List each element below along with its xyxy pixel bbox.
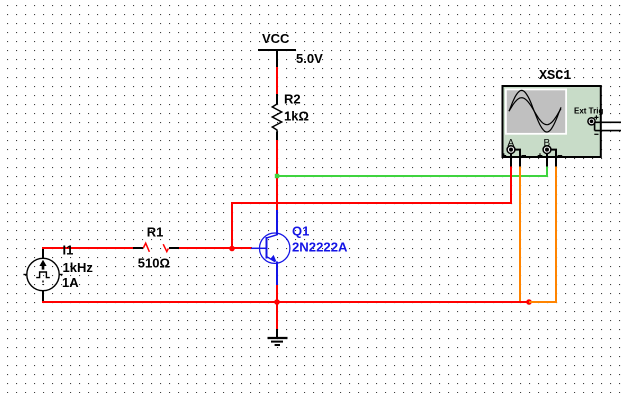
power VCC symbol — [258, 50, 296, 68]
scope trace channel A (sine) — [509, 90, 561, 132]
wire base node to scope channel A (red) — [232, 166, 511, 249]
wire scope B minus to ground net (orange) — [529, 166, 556, 302]
polarity marks channel B — [538, 153, 563, 158]
current source I1 — [23, 249, 62, 301]
svg-text:B: B — [544, 138, 551, 149]
wire R1 to base junction (red) — [179, 247, 251, 249]
svg-text:XSC1: XSC1 — [539, 69, 571, 84]
svg-text:1kHz: 1kHz — [63, 260, 94, 275]
scope terminal B — [543, 146, 551, 154]
svg-text:2N2222A: 2N2222A — [292, 239, 348, 254]
resistor R2 — [272, 94, 281, 141]
wire base lead red stub — [250, 247, 252, 249]
node base junction (red dot) — [229, 246, 235, 252]
wire emitter to ground net (red) — [276, 285, 278, 303]
wire I1 top to base net (red) — [42, 247, 133, 249]
scope terminal A stem wires — [511, 150, 520, 167]
ext trig stub wires — [595, 122, 621, 130]
wire bottom ground net (red) — [42, 301, 529, 303]
svg-text:Q1: Q1 — [292, 223, 309, 238]
node collector junction (green dot) — [275, 174, 279, 178]
wire ground stem (red) — [276, 302, 278, 330]
wire scope A minus to ground net (orange) — [519, 166, 521, 301]
svg-text:R1: R1 — [147, 224, 164, 239]
svg-text:1A: 1A — [62, 275, 79, 290]
node scope return junction (red dot) — [526, 299, 532, 305]
svg-text:R2: R2 — [284, 92, 301, 107]
oscilloscope XSC1 — [503, 86, 601, 157]
svg-text:VCC: VCC — [262, 31, 290, 46]
wire R2 to collector node (red) — [276, 140, 278, 210]
scope ext trig terminal — [588, 118, 595, 125]
polarity marks ext trig — [594, 115, 598, 134]
svg-text:510Ω: 510Ω — [138, 255, 170, 270]
scope terminal B stem wires — [547, 150, 556, 167]
svg-text:I1: I1 — [63, 243, 74, 258]
polarity marks channel A — [502, 153, 527, 158]
scope screen — [505, 89, 567, 135]
svg-text:Ext Trig: Ext Trig — [574, 106, 603, 115]
resistor R1 — [133, 243, 179, 252]
wire VCC to R2 (red) — [276, 67, 278, 95]
svg-text:5.0V: 5.0V — [296, 51, 323, 66]
wire collector node to scope channel B (green) — [277, 166, 547, 176]
scope terminal A — [507, 146, 515, 154]
ground — [268, 329, 288, 345]
svg-text:A: A — [508, 138, 515, 149]
transistor Q1 — [251, 210, 290, 286]
svg-text:1kΩ: 1kΩ — [284, 109, 309, 124]
scope trace channel B (sine) — [509, 98, 561, 125]
node emitter/ground junction (red dot) — [274, 299, 280, 305]
